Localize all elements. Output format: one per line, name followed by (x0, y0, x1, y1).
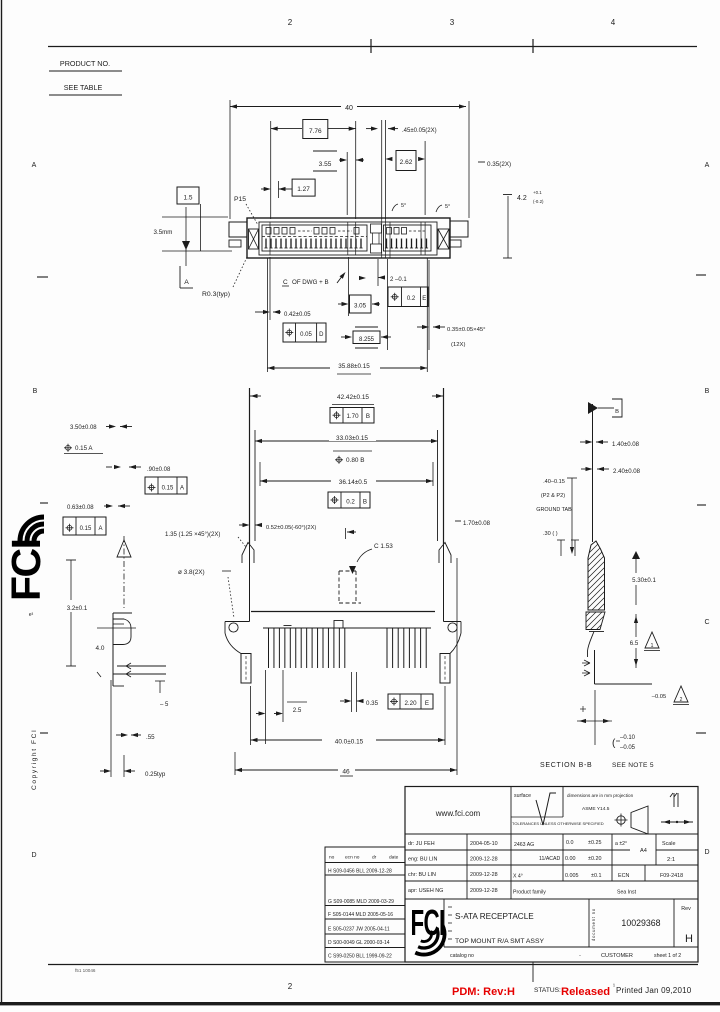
ext line x378 lower (377, 259, 379, 286)
ext line x348 lower (348, 257, 350, 316)
dim 0.35 / frame 2.20 E (351, 672, 353, 712)
right contact bottom row pins (386, 239, 388, 249)
svg-text:surface: surface (514, 793, 531, 799)
drawing frame top border (48, 46, 697, 48)
svg-text:5°: 5° (445, 204, 450, 210)
section solder stars (582, 660, 590, 666)
left wing small tab (229, 240, 241, 247)
svg-text:E S05-0237 JW 2005-04-11: E S05-0237 JW 2005-04-11 (328, 927, 390, 933)
svg-text:H: H (685, 933, 693, 945)
svg-text:sheet 1 of 2: sheet 1 of 2 (654, 953, 681, 959)
tb band line under top (405, 833, 698, 835)
smt lead center bump (334, 621, 343, 629)
lead bottom bracket (113, 685, 124, 687)
dim 1.40±0.08 (580, 441, 586, 443)
dim 3.55 basic (313, 150, 337, 152)
svg-text:X 4°: X 4° (513, 874, 523, 880)
dim 40.0±0.15 bottom (251, 739, 446, 741)
small arrow right (356, 277, 364, 279)
svg-text:A: A (184, 279, 189, 286)
svg-text:ASME Y14.5: ASME Y14.5 (582, 806, 610, 812)
svg-text:2: 2 (680, 697, 683, 703)
dim .45±0.05(2X) (366, 128, 376, 130)
ext line x355 (355, 121, 357, 219)
svg-text:5.30±0.1: 5.30±0.1 (632, 577, 656, 584)
ext line x235 (234, 752, 236, 775)
tb fci logo cell divider (443, 899, 445, 947)
svg-text:0.0: 0.0 (566, 840, 574, 846)
tb product family row (405, 898, 698, 900)
svg-text:¹: ¹ (613, 984, 615, 990)
section bottom line (595, 683, 653, 685)
feature frame 0.15 A boxed1 (145, 477, 187, 494)
svg-text:10029368: 10029368 (621, 918, 660, 928)
svg-text:(12X): (12X) (451, 342, 465, 348)
svg-text:GROUND TAB: GROUND TAB (536, 507, 572, 513)
svg-text:2: 2 (288, 982, 293, 991)
rev row H line (325, 874, 405, 876)
svg-text:2009-12-28: 2009-12-28 (470, 888, 498, 894)
right ear peak (439, 543, 451, 564)
svg-text:2.20: 2.20 (404, 700, 417, 707)
tb doc divider (588, 899, 590, 947)
svg-text:C 1.53: C 1.53 (374, 543, 393, 550)
tb name col divider (466, 834, 468, 899)
svg-text:7.76: 7.76 (309, 128, 322, 135)
svg-text:+0.1: +0.1 (533, 190, 542, 195)
svg-text:1.70: 1.70 (346, 413, 359, 420)
seating plane cross (594, 690, 596, 745)
svg-text:– 5: – 5 (160, 702, 169, 708)
ext line x445 bottom (444, 686, 446, 745)
tb divider fci.com right (510, 787, 512, 900)
tb tolerance line (511, 816, 563, 818)
smt leads left group (268, 628, 270, 668)
svg-text:2: 2 (288, 18, 293, 27)
svg-text:2:1: 2:1 (667, 857, 675, 863)
svg-text:FCI: FCI (3, 539, 49, 601)
svg-text:dr: dr (372, 855, 377, 861)
svg-text:C S99-0250 BLL 1999-09-22: C S99-0250 BLL 1999-09-22 (328, 954, 392, 960)
svg-text:.90±0.08: .90±0.08 (147, 467, 171, 473)
svg-text:no: no (329, 856, 335, 861)
left ear peak (242, 543, 254, 564)
svg-text:SECTION B-B: SECTION B-B (540, 762, 592, 769)
svg-text:2004-05-10: 2004-05-10 (470, 841, 498, 847)
boxed dim 7.76 (302, 119, 328, 138)
revision table outline (325, 847, 405, 962)
top zone tick 2 (532, 39, 534, 53)
left tab outline (225, 621, 250, 623)
tick x160 (159, 681, 161, 693)
feature frame 0.05 D (283, 323, 326, 342)
label =0.35(2X) (478, 161, 485, 163)
svg-text:D: D (319, 332, 324, 338)
svg-text:3: 3 (450, 18, 455, 27)
svg-text:date: date (389, 855, 399, 861)
svg-text:.30 ( ): .30 ( ) (543, 531, 558, 537)
svg-text:40.0±0.15: 40.0±0.15 (335, 739, 364, 746)
dim 7.76 line (271, 128, 356, 130)
4.2 dim line (507, 196, 509, 258)
svg-text:2009-12-28: 2009-12-28 (470, 872, 498, 878)
svg-text:D S00-0049 GL 2000-03-14: D S00-0049 GL 2000-03-14 (328, 940, 390, 946)
svg-text:0.42±0.05: 0.42±0.05 (284, 312, 311, 318)
svg-text:OF DWG + B: OF DWG + B (292, 279, 329, 286)
dim 46 bottom (235, 769, 457, 771)
ext line x270 lower (269, 257, 271, 320)
tb scale arrow symbol (661, 821, 693, 823)
svg-text:FCI: FCI (411, 904, 445, 944)
label 1.70±0.08 right (455, 520, 461, 522)
label 3.2(0.1) (58, 600, 96, 612)
ext lines through body (269, 222, 271, 255)
top view body inner rect (259, 222, 437, 255)
dim 2.40±0.08 (581, 468, 587, 470)
left foot (241, 654, 251, 684)
svg-text:B: B (33, 388, 38, 395)
svg-text:0.15: 0.15 (80, 526, 92, 532)
svg-text:3.5mm: 3.5mm (154, 229, 173, 236)
svg-text:TOLERANCES UNLESS OTHERWISE SP: TOLERANCES UNLESS OTHERWISE SPECIFIED (512, 821, 604, 826)
rev row F line (325, 918, 405, 920)
svg-text:B: B (705, 388, 710, 395)
svg-text:H S09-0456 BLL 2009-12-28: H S09-0456 BLL 2009-12-28 (328, 869, 392, 875)
svg-text:B: B (615, 409, 619, 415)
svg-text:-: - (579, 953, 581, 959)
tb FCI logo small (411, 904, 445, 944)
svg-text:dimensions are in mm projecti: dimensions are in mm projection (567, 793, 634, 798)
svg-text:3.50±0.08: 3.50±0.08 (70, 425, 97, 431)
sheet bottom thick edge (0, 1002, 720, 1005)
svg-text:A: A (180, 486, 184, 492)
dim 42.42±0.15 (250, 395, 261, 397)
svg-text:eng: BU LIN: eng: BU LIN (408, 857, 437, 863)
svg-text:F S05-0144 MLD 2005-05-16: F S05-0144 MLD 2005-05-16 (328, 912, 393, 918)
svg-text:Product family: Product family (513, 890, 546, 896)
svg-text:1.35 (1.25 ×45°)(2X): 1.35 (1.25 ×45°)(2X) (165, 531, 220, 538)
boxed dim 8.255 (355, 326, 378, 328)
svg-text:0.35±0.05×45°: 0.35±0.05×45° (447, 327, 486, 333)
left contact bottom row pins (265, 239, 267, 249)
svg-text:P15: P15 (234, 196, 246, 203)
ext line x124 short (123, 755, 125, 777)
svg-text:2.40±0.08: 2.40±0.08 (613, 468, 641, 475)
lead hook crossline (97, 627, 136, 629)
svg-text:0.35: 0.35 (366, 700, 379, 707)
drawing frame bottom border (48, 964, 698, 966)
right contact section rect (384, 225, 432, 251)
svg-text:www.fci.com: www.fci.com (435, 809, 481, 818)
front view bottom line (251, 611, 435, 613)
right wing tab (450, 221, 468, 237)
svg-text:40: 40 (345, 105, 353, 112)
svg-text:3.55: 3.55 (319, 161, 332, 168)
dim 36.14±0.5 (260, 480, 433, 482)
svg-text:e³: e³ (29, 612, 34, 618)
lead profile top bracket (113, 612, 132, 614)
right tab outline (444, 621, 462, 623)
right wing small tab (450, 240, 461, 247)
dim label 40 (341, 100, 357, 111)
lead lower line1 (117, 665, 166, 667)
lead detail dim 3.2 line (70, 560, 72, 666)
dim .90±0.08 (106, 466, 112, 468)
3.5mm dim ext top (162, 216, 228, 218)
rev row E line (325, 933, 405, 935)
svg-text:chr: BU LIN: chr: BU LIN (408, 872, 436, 878)
label 0.80 B (337, 457, 342, 462)
svg-text:G S09-0085 MLD 2009-03-29: G S09-0085 MLD 2009-03-29 (328, 899, 394, 905)
small arrow at x378 (378, 275, 385, 279)
left border tick y277 (37, 276, 48, 278)
leader from 1.5 box (200, 204, 202, 251)
tb tol col dividers (562, 834, 564, 881)
front view outer right line (443, 388, 445, 544)
section cut line (592, 404, 594, 542)
svg-text:0.25typ: 0.25typ (145, 771, 166, 778)
svg-text:E: E (425, 700, 429, 707)
svg-text:document no: document no (591, 908, 596, 941)
tb surface cell divider (562, 787, 564, 818)
svg-text:4.2: 4.2 (517, 195, 527, 202)
svg-text:C: C (704, 619, 709, 626)
svg-text:A: A (705, 162, 710, 169)
svg-text:C: C (283, 279, 288, 286)
product-no table mid line (49, 70, 122, 72)
lead detail open triangle (117, 540, 131, 557)
top view overall dim 40 line (230, 106, 466, 108)
3.5mm filled arrow (182, 241, 190, 250)
svg-text:±0.1: ±0.1 (591, 873, 601, 879)
left border tick y503 (40, 502, 48, 504)
status leader line (532, 962, 534, 982)
section base line (589, 631, 604, 633)
svg-text:F09-2418: F09-2418 (660, 873, 683, 879)
dim 2.5 with overline (265, 670, 267, 744)
tb surface check symbol (536, 793, 556, 825)
svg-text:ecn no: ecn no (345, 856, 360, 861)
svg-text:E: E (422, 296, 426, 302)
tick small (97, 672, 101, 677)
svg-text:2009-12-28: 2009-12-28 (470, 857, 498, 863)
draft angle callout 5deg right (436, 205, 442, 212)
svg-text:f51 10046: f51 10046 (75, 968, 96, 973)
svg-text:B: B (366, 413, 370, 420)
feature frame 1.70 B (330, 408, 374, 424)
svg-text:STATUS:: STATUS: (534, 987, 561, 994)
rev row D line (325, 947, 405, 949)
svg-text:SEE NOTE 5: SEE NOTE 5 (612, 762, 654, 769)
svg-text:(P2 & P2): (P2 & P2) (541, 493, 565, 499)
svg-text:(-0.2): (-0.2) (533, 199, 544, 204)
svg-text:–0.05: –0.05 (620, 745, 636, 751)
svg-text:35.88±0.15: 35.88±0.15 (338, 363, 370, 370)
svg-text:D: D (31, 852, 36, 859)
ext line right x469 (468, 101, 470, 218)
right tab hole circle (448, 623, 457, 632)
dim 0.42±0.05 (255, 311, 263, 313)
right border tick y733 (696, 732, 706, 734)
tb rev divider (673, 899, 675, 947)
rev row G line (325, 905, 405, 907)
feature frame 0.15 A boxed2 (63, 517, 106, 535)
3.5mm dim stem (185, 207, 187, 266)
section lead vertical (594, 650, 596, 684)
dim 33.03±0.15 (255, 440, 438, 442)
svg-text:Scale: Scale (662, 841, 676, 847)
chamfer detail dashed (339, 570, 356, 572)
svg-text:.55: .55 (146, 734, 155, 741)
right foot (440, 654, 450, 684)
left border tick y733 (40, 732, 48, 734)
ext line x429 (428, 260, 430, 350)
boxed dim 3.05 (350, 295, 372, 313)
svg-text:1.5: 1.5 (183, 195, 192, 202)
svg-text:0.05: 0.05 (300, 332, 312, 338)
left contact mid dashed line (262, 236, 367, 238)
svg-text:A: A (32, 162, 37, 169)
ext line x387.5 (387, 259, 389, 350)
ext stub x260 (259, 462, 261, 486)
left tab hole circle (229, 623, 238, 632)
right border tick y505 (697, 504, 706, 506)
ext line x457 long (456, 558, 458, 775)
dim 1.27 boxed (292, 179, 315, 196)
ext line x250 bottom (250, 686, 252, 745)
svg-text:B: B (363, 499, 367, 506)
lead detail centerline (123, 536, 125, 608)
svg-text:2 –0.1: 2 –0.1 (390, 277, 407, 283)
svg-text:46: 46 (342, 769, 350, 776)
svg-text:PDM: Rev:H: PDM: Rev:H (452, 986, 515, 998)
right contact top row pads (387, 228, 392, 235)
svg-text:2463 AG: 2463 AG (514, 842, 534, 848)
right border tick y275 (696, 274, 706, 276)
dotted leader P15 (246, 204, 258, 225)
svg-text:dr: JU FEH: dr: JU FEH (408, 841, 435, 847)
FCI corporate logo rotated (3, 517, 49, 601)
ext line x278.5 (278, 181, 280, 198)
svg-text:±0.20: ±0.20 (588, 856, 601, 862)
front view outer left line (249, 388, 251, 544)
ext line x111 long (110, 680, 112, 777)
draft angle callout 5deg left (392, 204, 398, 211)
ext stub x433 (432, 462, 434, 486)
svg-text:0.63±0.08: 0.63±0.08 (67, 505, 94, 511)
svg-text:Rev: Rev (681, 906, 691, 912)
datum A flag (179, 266, 181, 288)
left contact section rect (262, 225, 367, 251)
ext line x347 (346, 152, 348, 215)
svg-text:–0.10: –0.10 (620, 735, 636, 741)
svg-text:4.0: 4.0 (96, 645, 105, 652)
svg-text:±0.25: ±0.25 (588, 840, 601, 846)
section lead curve (588, 632, 595, 658)
svg-text:6.5: 6.5 (630, 640, 639, 647)
svg-text:0.005: 0.005 (565, 873, 579, 879)
svg-text:SEE TABLE: SEE TABLE (64, 83, 103, 92)
lead lower line2 (113, 673, 166, 675)
tb projection symbol (617, 816, 625, 824)
svg-text:Printed Jan 09,2010: Printed Jan 09,2010 (616, 986, 692, 995)
svg-text:S-ATA RECEPTACLE: S-ATA RECEPTACLE (455, 912, 534, 921)
ext line left x230 (229, 100, 231, 219)
svg-text:42.42±0.15: 42.42±0.15 (337, 394, 369, 401)
svg-text:0.15: 0.15 (162, 486, 174, 492)
svg-text:33.03±0.15: 33.03±0.15 (336, 435, 368, 442)
svg-text:0.52±0.05(-60°)(2X): 0.52±0.05(-60°)(2X) (266, 525, 316, 531)
svg-text:1.70±0.08: 1.70±0.08 (463, 520, 491, 527)
svg-text:0.80 B: 0.80 B (346, 457, 364, 464)
svg-text:A4: A4 (640, 848, 647, 854)
svg-text:TOP MOUNT R/A SMT ASSY: TOP MOUNT R/A SMT ASSY (455, 938, 544, 945)
svg-text:8.255: 8.255 (359, 337, 375, 343)
lead hook (113, 619, 131, 645)
sheet left edge line (1, 0, 3, 1004)
svg-text:ECN: ECN (618, 873, 629, 879)
feature frame 0.2 E (388, 287, 428, 307)
svg-text:0.35(2X): 0.35(2X) (487, 161, 511, 168)
svg-text:1.27: 1.27 (297, 186, 310, 193)
top view body outer rect (247, 218, 450, 258)
section arrow flag (588, 402, 598, 414)
front view inner left line (254, 430, 256, 541)
svg-text:2.5: 2.5 (293, 707, 302, 714)
svg-text:D: D (704, 849, 709, 856)
svg-text:apr: USEH NG: apr: USEH NG (408, 888, 443, 894)
svg-text:.45±0.05(2X): .45±0.05(2X) (402, 128, 437, 134)
note triangle 1 (645, 632, 659, 648)
svg-text:A: A (98, 526, 102, 532)
svg-text:Released: Released (561, 986, 610, 998)
svg-text:.40–0.15: .40–0.15 (543, 479, 565, 485)
smt lead row top line (263, 627, 431, 629)
svg-text:PRODUCT NO.: PRODUCT NO. (60, 59, 110, 68)
3.5mm dim ext bottom (162, 250, 232, 252)
dotted leader R0.3 (233, 257, 247, 287)
svg-text:CUSTOMER: CUSTOMER (601, 953, 633, 959)
tb title vertical strip marks (448, 907, 452, 939)
dim 2.62 boxed (396, 151, 416, 171)
ext line pair x381.7/x385.4 (381, 120, 383, 219)
ext line x270 (270, 121, 272, 219)
tb mm symbol cell (670, 793, 678, 807)
right X mounting pad (438, 229, 449, 249)
label 0.15 A underlined (66, 445, 71, 450)
svg-text:1.40±0.08: 1.40±0.08 (612, 441, 640, 448)
svg-text:4: 4 (611, 18, 616, 27)
ext line x425 (424, 141, 426, 215)
leader arrow diag (337, 275, 343, 283)
product-no table bottom line (49, 94, 122, 96)
tb name rows lines (405, 849, 630, 851)
center key divider (371, 224, 382, 233)
svg-text:11/ACAD: 11/ACAD (539, 856, 560, 862)
svg-text:1: 1 (651, 643, 654, 649)
svg-text:3.05: 3.05 (354, 303, 367, 310)
0.52 aux tick (345, 528, 347, 539)
boxed dim 1.5 (177, 187, 199, 204)
svg-text:a ±2°: a ±2° (615, 841, 627, 847)
dim 0.35±0.05x45 leader (417, 326, 423, 328)
ext line x267 to 35.88 (266, 258, 268, 372)
svg-text:3.2±0.1: 3.2±0.1 (67, 605, 88, 612)
rev table header line (325, 862, 405, 864)
front view inner right line (437, 430, 439, 541)
solder star marks (126, 663, 133, 669)
dim 6.5 vertical (635, 614, 637, 668)
